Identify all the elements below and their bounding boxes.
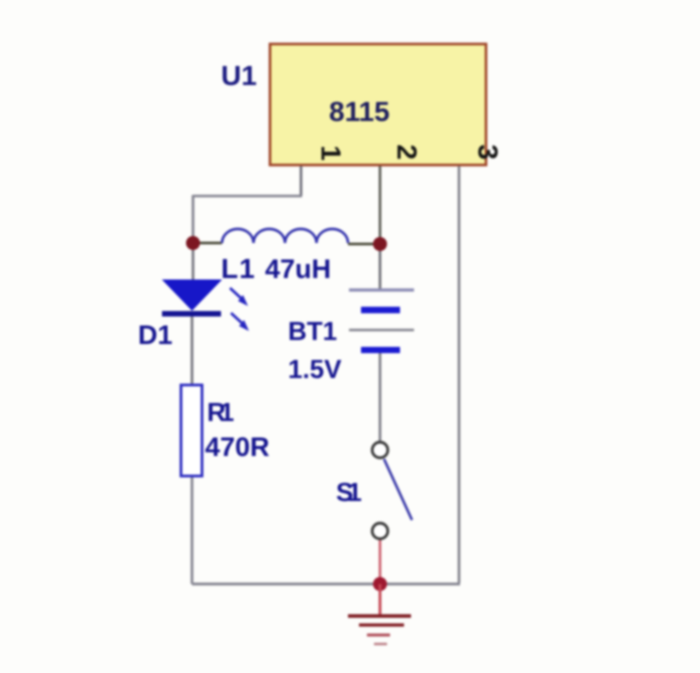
- wire node A to LED: [192, 243, 195, 281]
- ground stub: [379, 584, 382, 615]
- wire switch to ground node: [379, 538, 382, 584]
- battery BT1 plate 3: [349, 329, 414, 332]
- inductor L1: [222, 229, 348, 243]
- battery BT1 plate 2: [361, 307, 400, 314]
- switch S1 top terminal: [372, 442, 388, 458]
- S1 label: [336, 477, 361, 507]
- pin number 2: [392, 144, 423, 160]
- switch S1 blade: [384, 459, 412, 520]
- battery BT1 plate 4: [361, 347, 400, 353]
- svg-text:47uH: 47uH: [265, 254, 331, 284]
- wire left down to node A: [192, 195, 195, 243]
- switch S1 bottom terminal: [372, 523, 388, 539]
- wire resistor to bottom: [191, 475, 194, 584]
- IC U1 8115: [270, 44, 486, 165]
- ground node junction: [373, 577, 387, 591]
- resistor R1: [181, 385, 202, 476]
- inductor L1 right stub: [348, 243, 380, 246]
- svg-text:2: 2: [392, 144, 423, 160]
- wire battery to switch: [379, 351, 382, 444]
- LED D1: [162, 280, 221, 317]
- U1 label: [221, 60, 257, 91]
- svg-text:BT1: BT1: [288, 316, 337, 346]
- svg-text:U1: U1: [221, 60, 257, 91]
- U1 value 8115: [329, 96, 390, 127]
- inductor L1 left stub: [195, 242, 222, 245]
- node B junction: [373, 237, 387, 251]
- ground: [348, 616, 411, 644]
- svg-text:470R: 470R: [205, 432, 270, 462]
- wire node B to battery: [379, 244, 382, 289]
- R1 label: [207, 397, 234, 427]
- L1 label: [221, 253, 256, 284]
- LED D1 arrows: [230, 288, 249, 331]
- wire LED to resistor: [191, 316, 194, 386]
- svg-text:L1: L1: [221, 253, 256, 284]
- battery BT1 plate 1: [349, 288, 414, 291]
- svg-text:1: 1: [316, 145, 347, 161]
- wire pin2 vertical: [379, 166, 382, 244]
- wire pin1 horizontal: [193, 195, 302, 198]
- svg-text:3: 3: [473, 144, 504, 160]
- R1 value 470R: [205, 432, 270, 462]
- BT1 value 1.5V: [288, 354, 342, 384]
- pin number 3: [473, 144, 504, 160]
- D1 label: [138, 320, 173, 350]
- pin number 1: [316, 145, 347, 161]
- wire pin1 vertical stub: [300, 166, 303, 196]
- svg-text:8115: 8115: [329, 96, 390, 127]
- svg-text:1.5V: 1.5V: [288, 354, 342, 384]
- wire pin3 vertical: [458, 166, 461, 583]
- L1 value 47uH: [265, 254, 331, 284]
- BT1 label: [288, 316, 337, 346]
- node A junction: [186, 236, 200, 250]
- wire bottom horizontal: [192, 583, 460, 586]
- svg-text:D1: D1: [138, 320, 173, 350]
